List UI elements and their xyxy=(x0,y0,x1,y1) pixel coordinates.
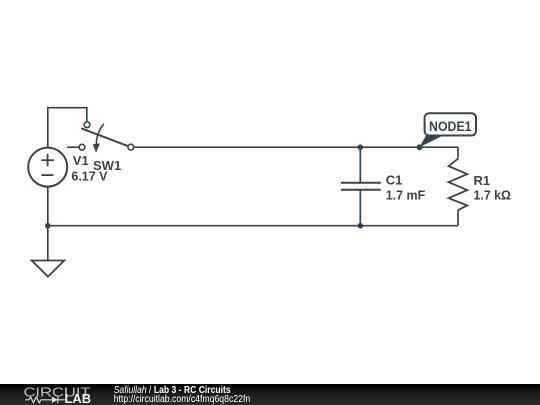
svg-text:NODE1: NODE1 xyxy=(429,119,472,134)
svg-text:http://circuitlab.com/c4fmq6q8: http://circuitlab.com/c4fmq6q8c22fn xyxy=(114,394,251,405)
svg-text:C1: C1 xyxy=(386,172,403,187)
svg-text:1.7 mF: 1.7 mF xyxy=(386,188,426,203)
svg-text:1.7 kΩ: 1.7 kΩ xyxy=(474,188,512,203)
svg-text:R1: R1 xyxy=(474,173,491,188)
svg-text:V1: V1 xyxy=(73,153,89,168)
svg-text:LAB: LAB xyxy=(65,392,92,405)
svg-text:SW1: SW1 xyxy=(93,158,121,173)
